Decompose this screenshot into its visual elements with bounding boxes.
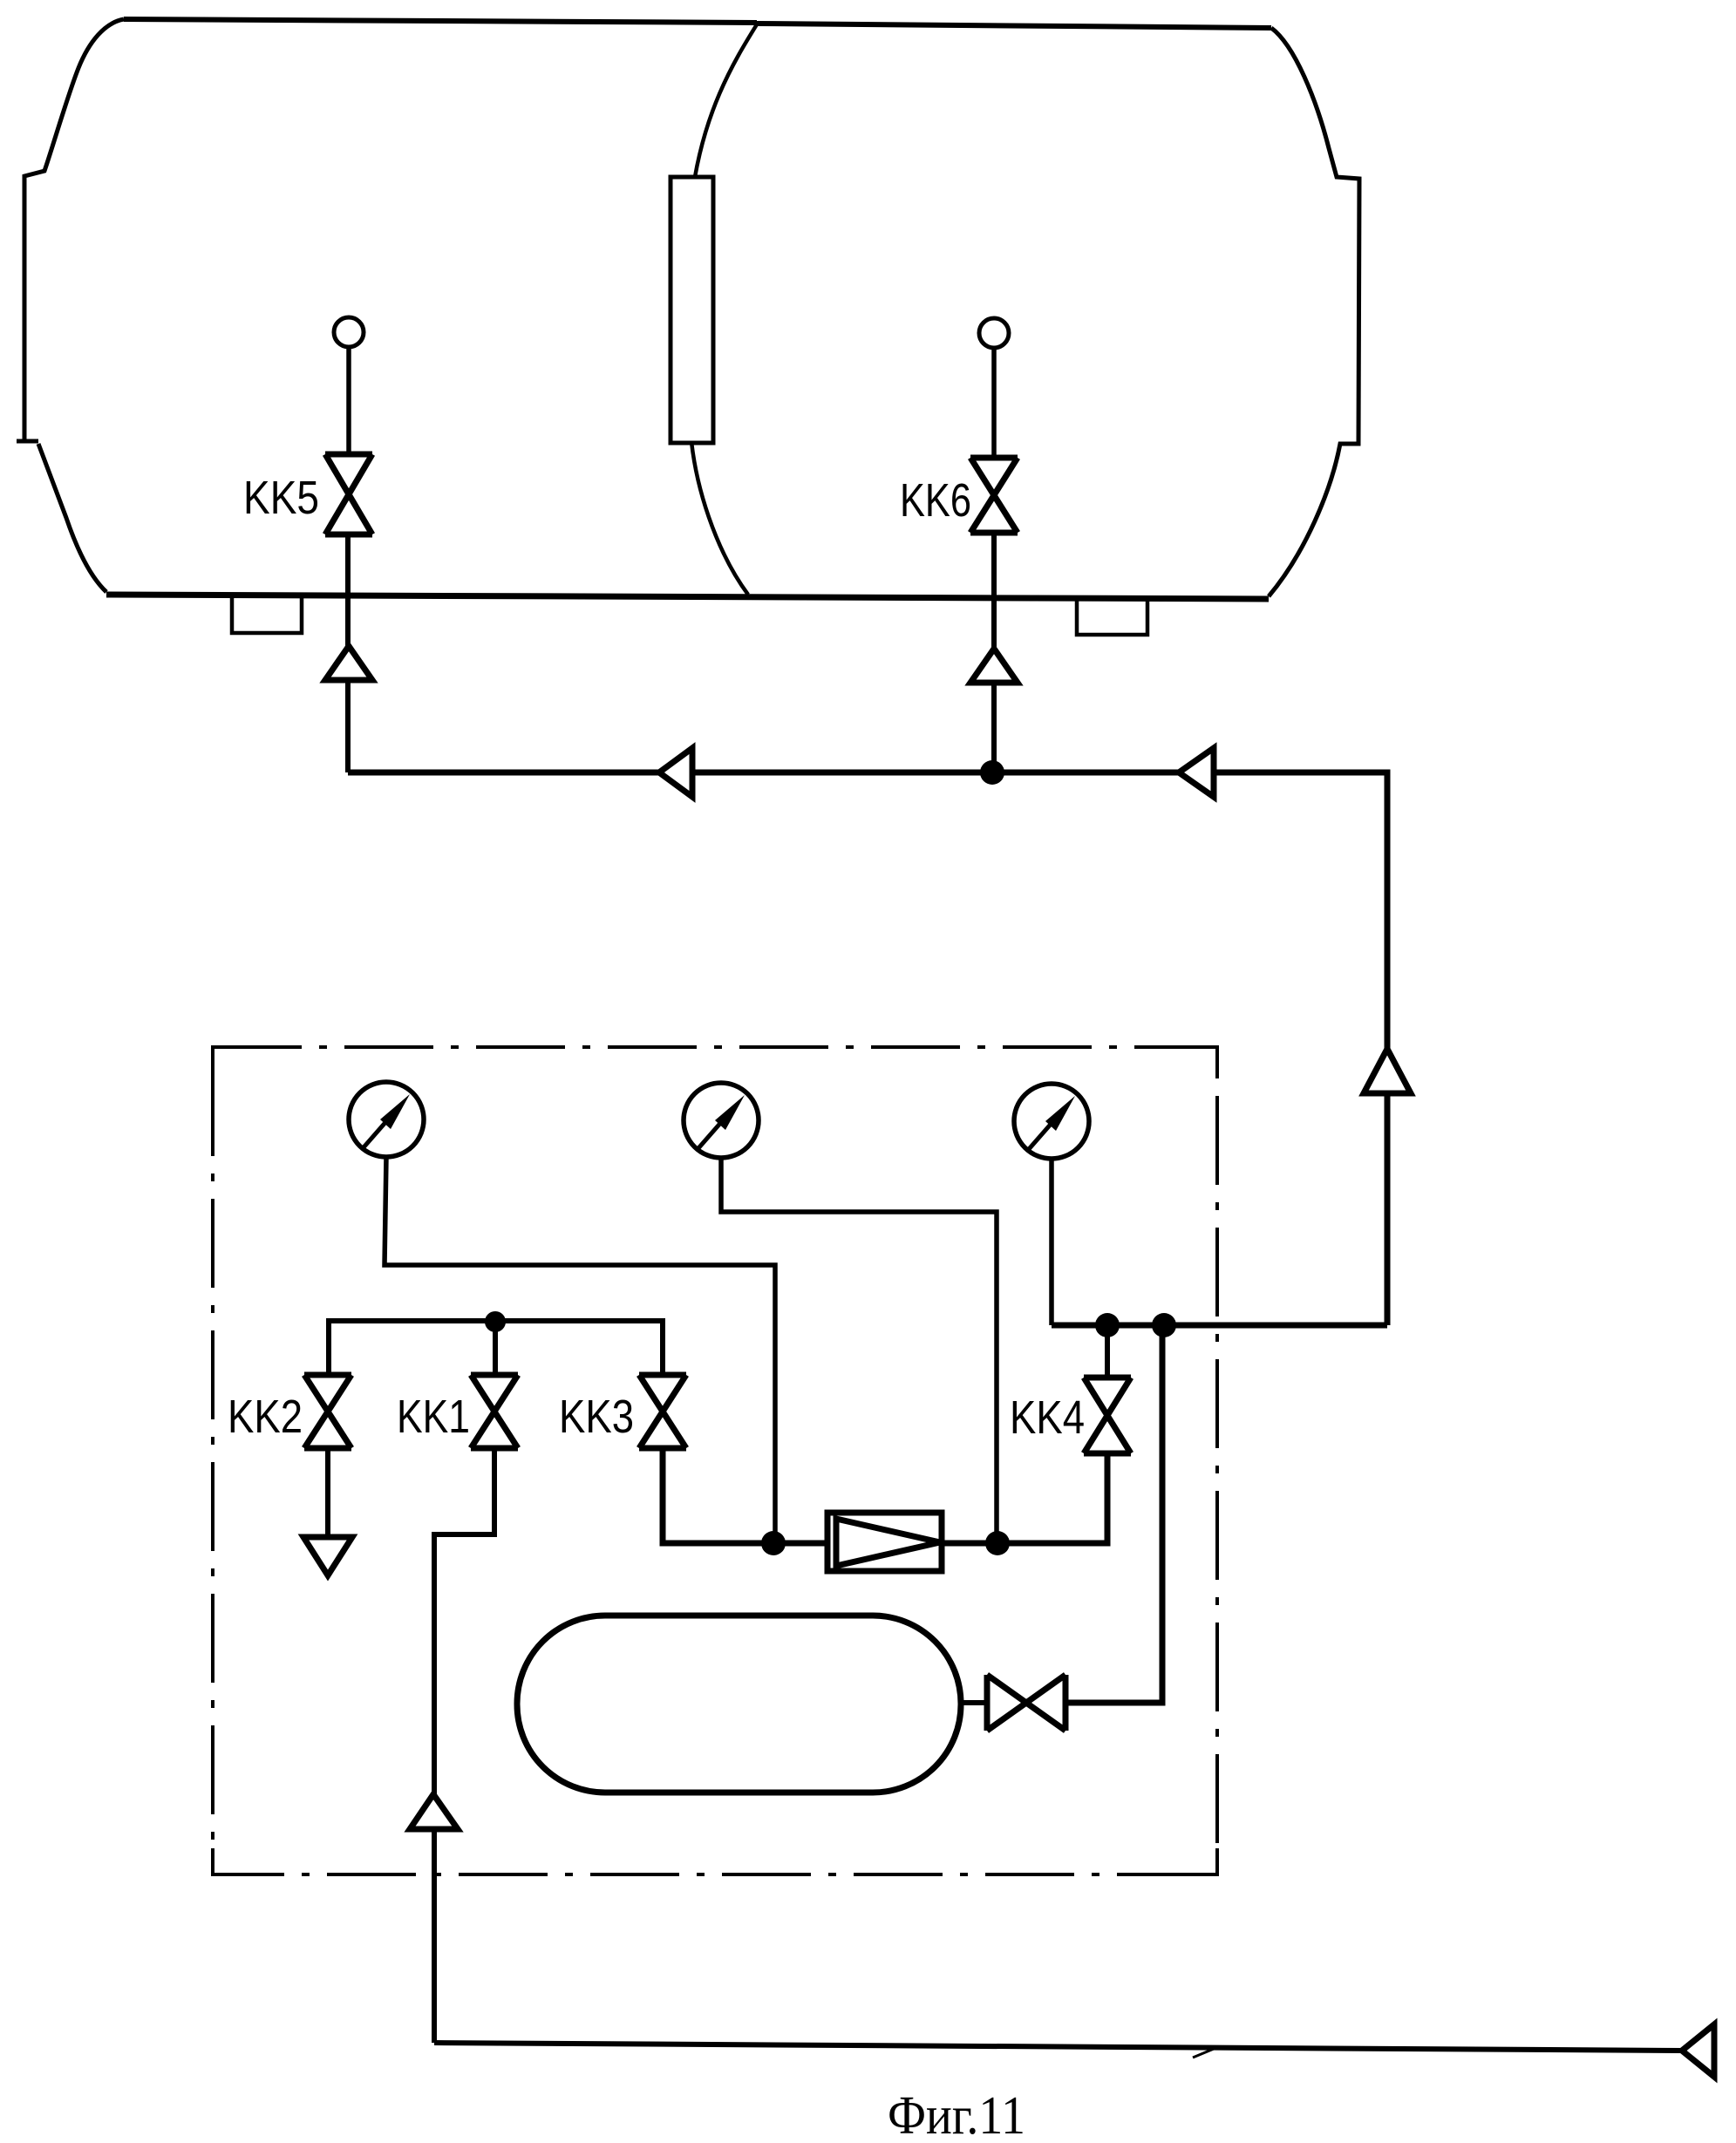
valve KK2: [304, 1375, 351, 1448]
junction node A on header (KK4 branch): [1095, 1313, 1120, 1337]
junction node D (gauge PG2 tap): [985, 1531, 1010, 1555]
wire: gauge PG1 to junction C: [385, 1157, 775, 1542]
wire: manifold KK2-KK1-KK3: [329, 1321, 663, 1375]
svg-text:KK4: KK4: [1010, 1391, 1085, 1444]
tank T2 level gauge column: [671, 177, 713, 443]
valve KK1: [471, 1375, 518, 1448]
tank T2 outline: [690, 24, 1359, 596]
wire: gauge PG2 to junction D: [721, 1158, 997, 1542]
node: KK5 tank nozzle circle: [334, 317, 364, 347]
flow arrow on main pipe right: [1179, 748, 1214, 797]
tank T2 support bracket: [1077, 601, 1147, 635]
vent arrow on KK2 drain: [303, 1537, 352, 1575]
wire: KK1 manifold drop: [493, 1321, 498, 1375]
wire: check valve to KK4: [942, 1453, 1107, 1543]
receiver cylinder: [517, 1616, 961, 1793]
svg-text:Фиг.11: Фиг.11: [888, 2086, 1025, 2143]
flow arrow on KK6 branch: [970, 649, 1018, 683]
check valve: [827, 1513, 942, 1571]
wire: KK5 stem upper: [346, 347, 351, 456]
flow arrow on main pipe left: [659, 748, 692, 797]
wire: charge valve to junction B: [1065, 1325, 1162, 1703]
wire: gauge PG3 to header: [1049, 1159, 1054, 1325]
flow arrow on KK5 branch: [325, 646, 372, 680]
junction node B on header (cylinder branch): [1152, 1313, 1176, 1337]
svg-text:KK2: KK2: [228, 1391, 303, 1443]
wire: KK2 drain: [325, 1448, 330, 1538]
junction node on manifold: [485, 1311, 506, 1332]
flow arrow on KK1 outlet: [410, 1794, 458, 1829]
flow arrow at outlet pipe end: [1682, 2024, 1714, 2077]
wire: panel inlet header: [1052, 1323, 1387, 1329]
junction node: KK6 branch on main pipe: [980, 760, 1004, 785]
wire: bottom outlet pipe: [434, 2043, 1682, 2051]
tank T1 support bracket: [232, 596, 302, 633]
wire: cylinder to charge valve: [961, 1700, 987, 1705]
wire: KK6 stem upper: [991, 348, 997, 459]
flow arrow on riser: [1364, 1049, 1411, 1093]
wire: KK3 to check valve: [663, 1448, 827, 1543]
node: KK6 tank nozzle circle: [979, 318, 1009, 348]
pressure gauge PG1: [349, 1082, 424, 1157]
wire: KK5 stem lower: [345, 534, 351, 772]
instrument panel dash-dot enclosure: [213, 1047, 1217, 1874]
tank T1 outline: [17, 19, 1269, 599]
tick on bottom pipe: [1193, 2049, 1214, 2058]
valve KK5: [325, 454, 372, 534]
pressure gauge PG2: [684, 1083, 759, 1158]
wire: main pipe from tanks with riser: [348, 772, 1387, 1325]
wire: KK1 to bottom outlet: [434, 1448, 494, 2043]
valve KK3: [639, 1375, 686, 1448]
svg-text:KK6: KK6: [900, 474, 971, 527]
valve KK4: [1084, 1378, 1131, 1453]
junction node C (gauge PG1 tap): [761, 1531, 786, 1555]
svg-text:KK1: KK1: [397, 1391, 470, 1443]
valve KK6: [970, 458, 1018, 533]
pressure gauge PG3: [1014, 1084, 1089, 1159]
wire: KK4 upper drop: [1105, 1325, 1110, 1378]
wire: KK6 stem lower: [991, 533, 997, 772]
svg-text:KK5: KK5: [243, 472, 319, 524]
cylinder charge valve: [987, 1675, 1065, 1731]
svg-text:KK3: KK3: [559, 1391, 634, 1443]
